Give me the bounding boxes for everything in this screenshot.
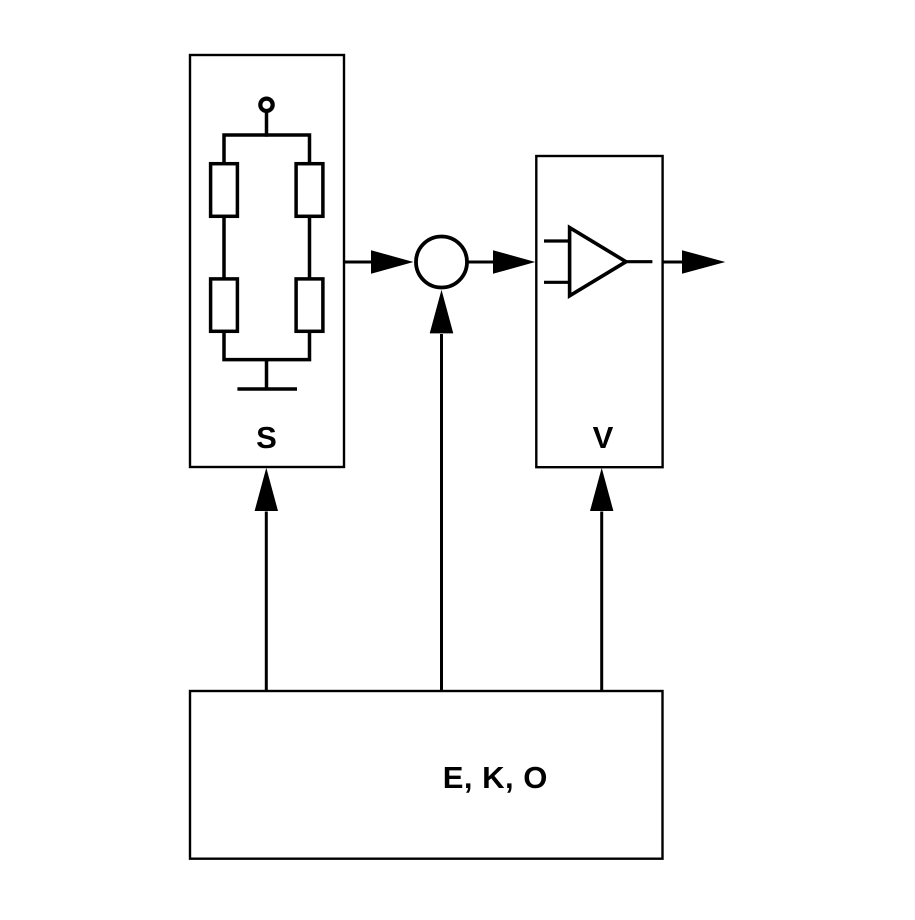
resistor R3 (lower left bridge arm) — [211, 279, 238, 331]
wire ground stem — [265, 360, 269, 389]
arrowhead into V — [493, 250, 535, 274]
arrowhead into summing node (from S) — [371, 250, 414, 274]
svg-text:E, K, O: E, K, O — [443, 760, 548, 795]
wire op-amp input stub upper — [544, 239, 570, 242]
svg-text:S: S — [256, 420, 277, 455]
arrowhead into S — [255, 468, 278, 511]
arrowhead into V (from below) — [590, 468, 613, 511]
summing node (circle) — [416, 237, 467, 288]
wire V output — [663, 261, 683, 264]
wire E,K,O to summing node — [440, 334, 443, 691]
wire left branch middle — [222, 216, 226, 279]
wire E,K,O to S — [265, 512, 268, 692]
arrowhead output — [682, 250, 725, 274]
resistor R1 (upper left bridge arm) — [211, 164, 238, 217]
sensor block S (outer box) — [190, 55, 344, 467]
wire summing node to V — [467, 261, 494, 264]
resistor R4 (lower right bridge arm) — [296, 279, 323, 331]
wire S to summing node — [344, 261, 372, 264]
wire op-amp output stub — [626, 260, 652, 263]
op-amp U1 triangle — [570, 228, 626, 296]
wire bridge bottom bar with branch rises — [224, 331, 310, 359]
arrowhead into summing node (from below) — [430, 290, 454, 334]
resistor R2 (upper right bridge arm) — [296, 164, 323, 217]
amplifier block V (outer box) — [536, 156, 662, 467]
wire E,K,O to V — [600, 512, 603, 692]
terminal circle (bridge supply terminal) — [260, 99, 272, 111]
ground — [237, 387, 297, 391]
svg-text:V: V — [593, 420, 614, 455]
wire op-amp input stub lower — [544, 281, 570, 284]
wire right branch middle — [308, 216, 312, 279]
wire bridge top bar with branch drops — [224, 135, 310, 164]
influence block E,K,O (outer box) — [190, 691, 663, 859]
wire terminal stem — [265, 111, 269, 137]
